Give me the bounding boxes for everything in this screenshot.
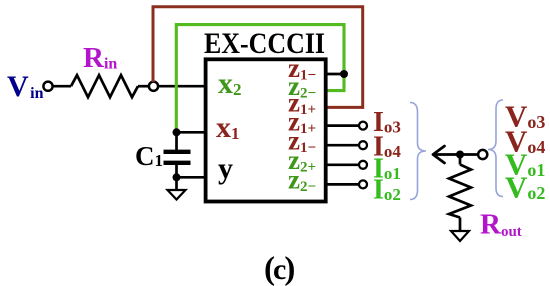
label Io1 (373, 154, 401, 185)
label Rout (480, 209, 522, 241)
brace left outputs (410, 103, 426, 200)
terminal Io2 (359, 180, 367, 188)
svg-text:EX-CCCII: EX-CCCII (204, 27, 325, 60)
brace right voltages (488, 100, 503, 197)
label Vo2 (505, 170, 545, 205)
svg-text:y: y (218, 152, 233, 185)
wire z1- stub (324, 73, 344, 76)
wire output Io1 stub (324, 163, 360, 166)
wire output Io3 stub (324, 124, 360, 127)
pin label z1+ row3 (288, 88, 316, 119)
terminal Io1 (359, 161, 367, 169)
label Io4 (373, 132, 401, 163)
wire output Io4 stub (324, 144, 360, 147)
label C1 (135, 141, 163, 171)
junction y node (173, 173, 181, 181)
wire x1 pin (177, 131, 208, 134)
pin label z2- row7 (288, 165, 316, 196)
svg-text:(c): (c) (264, 251, 295, 286)
resistor Rin (71, 75, 138, 97)
wire C1 to y node (175, 165, 178, 178)
wire Vin to Rin (53, 85, 71, 88)
capacitor C1 (164, 152, 191, 163)
pin label z2+ row6 (288, 145, 316, 176)
pin label x1 (216, 111, 240, 144)
pin label x2 (218, 67, 242, 100)
wire dark red feedback node to z1+ (153, 7, 363, 108)
junction z1- on green wire (340, 70, 348, 78)
node A terminal circle (149, 82, 158, 91)
wire Rout node to terminal (460, 153, 478, 156)
wire Rin to node (138, 85, 149, 88)
pin label z2- row2 (288, 71, 316, 102)
label Vo3 (505, 99, 545, 134)
resistor Rout (449, 155, 471, 231)
terminal Io3 (359, 122, 367, 130)
caption (c) (264, 251, 295, 286)
label Vo4 (505, 124, 545, 159)
terminal Io4 (359, 141, 367, 149)
pin label y (218, 152, 233, 185)
pin label z1- row5 (288, 126, 316, 157)
arrow current into Rout (433, 146, 460, 163)
wire y pin (177, 176, 208, 179)
wire green feedback x1 to z2- (176, 25, 344, 131)
wire node to x2 pin (158, 85, 207, 88)
ground under C1 (168, 190, 186, 200)
terminal Vout (478, 150, 487, 159)
label Vin (7, 70, 44, 103)
op-block U1 EX-CCCII box (206, 59, 326, 201)
label Rin (83, 42, 117, 74)
wire y node to ground (175, 177, 178, 190)
junction x1 node (173, 128, 181, 136)
wire x1 node to C1 (175, 132, 178, 150)
label EX-CCCII title (204, 27, 325, 60)
junction Rout node (456, 151, 464, 159)
pin label z1+ row4 (288, 107, 316, 138)
terminal Vin (43, 82, 52, 91)
label Io2 (373, 175, 401, 206)
label Vo1 (505, 147, 545, 182)
pin label z1- row1 (288, 53, 316, 84)
label Io3 (373, 107, 401, 138)
wire output Io2 stub (324, 183, 360, 186)
ground under Rout (451, 231, 469, 241)
